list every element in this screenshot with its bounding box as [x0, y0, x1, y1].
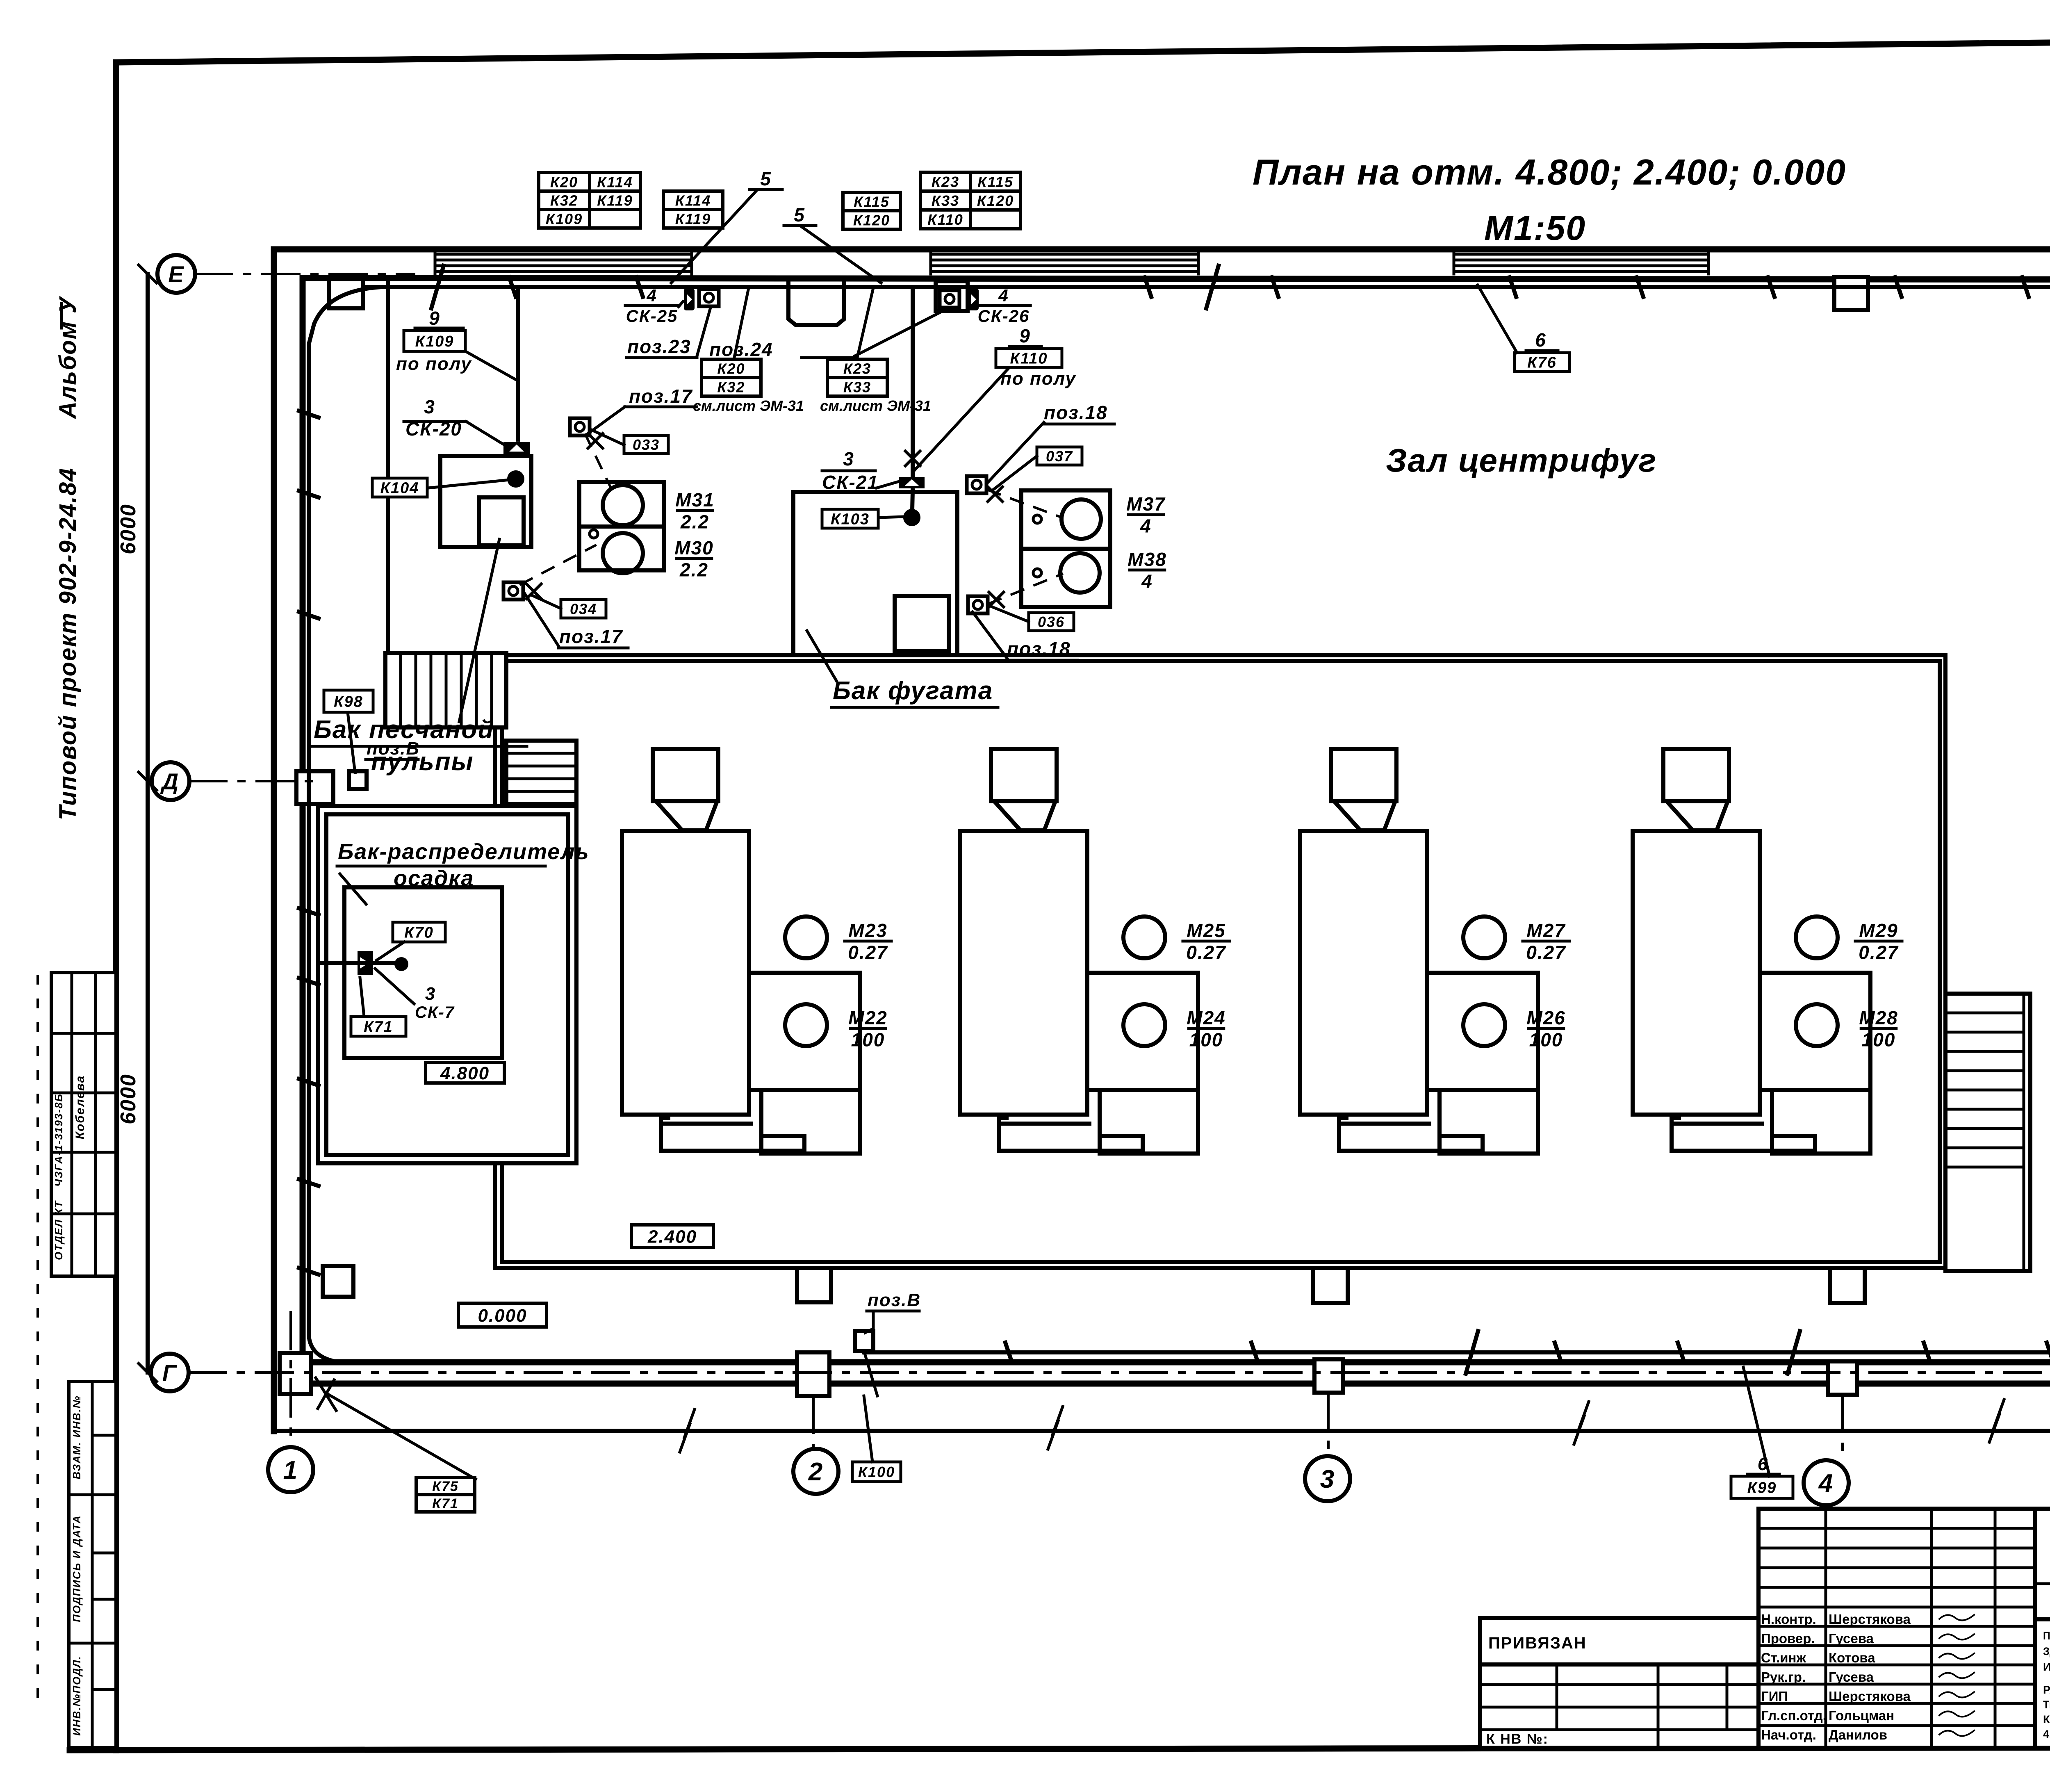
K100 bottom leader	[864, 1396, 872, 1462]
svg-text:100: 100	[851, 1029, 885, 1051]
label 5 first	[760, 168, 772, 189]
sand pulp tank label line1	[314, 716, 494, 744]
svg-text:СК-20: СК-20	[405, 418, 462, 440]
svg-text:ГИП: ГИП	[1761, 1689, 1788, 1704]
label box K99 bottom	[1731, 1476, 1793, 1498]
svg-text:033: 033	[633, 436, 660, 453]
svg-text:М1:50: М1:50	[1484, 209, 1586, 247]
svg-text:см.лист ЭМ-31: см.лист ЭМ-31	[820, 397, 931, 414]
label poz.18 upper	[1044, 402, 1108, 423]
svg-text:Альбом У: Альбом У	[55, 296, 81, 420]
svg-text:2.2: 2.2	[680, 511, 709, 533]
poz.24 underline	[802, 356, 855, 359]
label stack K115 K120	[843, 192, 900, 229]
svg-text:М29: М29	[1859, 920, 1898, 941]
svg-text:СК-26: СК-26	[978, 306, 1030, 326]
svg-text:4: 4	[646, 286, 657, 305]
bottom apron line	[274, 1429, 2050, 1433]
label CK-7	[415, 1003, 455, 1021]
svg-text:К20: К20	[717, 360, 745, 377]
fugate tank label	[833, 677, 993, 705]
top cable line	[309, 287, 2050, 1362]
left stamp upper table	[51, 973, 116, 1276]
cable drop to CK-21	[912, 289, 913, 511]
axis D dash line	[189, 780, 324, 782]
fugate leader	[807, 631, 836, 681]
label box K76	[1515, 353, 1569, 372]
sensor poz.18 upper	[967, 476, 986, 493]
svg-text:Гольцман: Гольцман	[1829, 1708, 1894, 1723]
centrifuge unit 2 body	[960, 831, 1087, 1115]
svg-text:К32: К32	[550, 192, 578, 209]
svg-text:4: 4	[1818, 1469, 1834, 1498]
svg-text:К119: К119	[597, 192, 633, 209]
svg-text:4.800; 2.400 И 0.000. ЗАЛ ЦЕНТ: 4.800; 2.400 И 0.000. ЗАЛ ЦЕНТРИФУГ	[2043, 1728, 2050, 1740]
axis 1 circle	[268, 1447, 313, 1492]
label 9 underline	[415, 327, 463, 330]
K20 K32 leader	[734, 288, 749, 359]
svg-text:М30: М30	[674, 537, 713, 559]
sand pulp tank label line2	[371, 748, 474, 776]
svg-text:Гусева: Гусева	[1829, 1631, 1874, 1646]
title block description 2	[2043, 1683, 2050, 1740]
sensor poz.B bottom	[855, 1331, 873, 1351]
centrifuge unit 2 motor box	[1089, 973, 1198, 1154]
bottom cable line	[864, 1350, 2050, 1354]
label poz.24 text	[709, 339, 773, 360]
left stamp signature text	[73, 1075, 87, 1140]
poz.23 leader	[697, 308, 711, 356]
dash link 033 to pump	[585, 435, 611, 488]
label 3 CK-20 bar	[404, 420, 466, 423]
label 5 second leader	[802, 227, 881, 283]
K71 leader	[360, 978, 364, 1017]
poz.18 lower leader	[973, 612, 1007, 658]
axis 2 circle	[793, 1449, 838, 1494]
centrifuge unit 1 motor circle lower	[785, 1004, 827, 1046]
svg-text:М25: М25	[1187, 920, 1225, 941]
K110 leader	[915, 368, 1009, 470]
svg-text:К НВ №:: К НВ №:	[1486, 1731, 1549, 1747]
svg-text:осадка: осадка	[394, 866, 474, 891]
bottom apron break 3	[1574, 1402, 1589, 1444]
svg-text:К99: К99	[1747, 1480, 1777, 1497]
label box 033	[624, 435, 668, 454]
svg-text:6000: 6000	[116, 1074, 140, 1124]
svg-text:ПОДПИСЬ И ДАТА: ПОДПИСЬ И ДАТА	[71, 1515, 83, 1622]
svg-text:К75: К75	[432, 1479, 459, 1494]
svg-text:3: 3	[425, 984, 436, 1004]
svg-text:ВЗАМ. ИНВ.№: ВЗАМ. ИНВ.№	[71, 1395, 83, 1480]
poz.24 leader	[855, 308, 948, 356]
svg-text:М27: М27	[1526, 920, 1566, 941]
top cable break marks	[431, 266, 2050, 308]
top wall door niche 1	[329, 280, 363, 308]
label 3 CK-20 numeral	[424, 396, 435, 417]
pump block M31/M30	[579, 482, 664, 573]
left margin dashed line	[36, 976, 39, 1706]
svg-text:2.400: 2.400	[647, 1227, 697, 1247]
sand pulp leader	[459, 539, 499, 722]
poz.B left underline	[366, 758, 418, 761]
dash link 034 to pump	[521, 545, 595, 584]
dash link 036 to pump M38	[989, 574, 1062, 604]
svg-text:см.лист ЭМ-31: см.лист ЭМ-31	[693, 397, 804, 414]
poz.18 lower underline	[1006, 659, 1077, 662]
top wall cable tray segment B	[931, 252, 1198, 274]
label 5 second underline	[784, 224, 816, 227]
svg-text:Нач.отд.: Нач.отд.	[1761, 1727, 1816, 1742]
K70 leader	[376, 942, 404, 960]
leader CK-25	[679, 301, 683, 307]
position sensor near CK-25	[699, 289, 719, 306]
dimension 6000 lower	[116, 1074, 140, 1124]
sensor poz.B left wall	[349, 771, 367, 789]
svg-text:ИНВ.№ПОДЛ.: ИНВ.№ПОДЛ.	[71, 1655, 83, 1736]
poz.18 upper underline	[1043, 423, 1114, 426]
platform 4.800 inner	[344, 887, 502, 1058]
svg-text:поз.17: поз.17	[559, 626, 623, 647]
label box K70	[393, 922, 445, 942]
left stamp doc number text	[52, 1093, 65, 1187]
axis 4 dash line	[1841, 1395, 1844, 1460]
poz.18 upper leader	[986, 422, 1044, 484]
fugate tank	[793, 492, 957, 655]
svg-text:К120: К120	[853, 212, 890, 228]
037 leader	[992, 456, 1037, 490]
cable drop to CK-20	[516, 289, 520, 440]
pump M30 label	[674, 537, 713, 581]
svg-text:0.27: 0.27	[1186, 942, 1226, 963]
svg-text:4: 4	[1141, 571, 1153, 592]
label 6 K76 numeral	[1535, 329, 1547, 351]
sensor CK-25 wall unit	[684, 288, 695, 310]
svg-text:И 4 ЦЕНТРИФУГАМИ ОГШ-631К-02: И 4 ЦЕНТРИФУГАМИ ОГШ-631К-02	[2043, 1661, 2050, 1673]
svg-text:К33: К33	[843, 378, 871, 395]
svg-text:М24: М24	[1187, 1007, 1225, 1028]
label box K100 bottom	[852, 1462, 901, 1482]
svg-text:К71: К71	[432, 1496, 459, 1512]
svg-text:по полу: по полу	[1000, 369, 1077, 389]
svg-text:1: 1	[283, 1456, 298, 1484]
hall label	[1386, 442, 1657, 479]
svg-text:КЛАДКА КАБЕЛЯ. ПЛАН НА ОТМ.: КЛАДКА КАБЕЛЯ. ПЛАН НА ОТМ.	[2043, 1713, 2050, 1726]
label stack K75 K71	[416, 1477, 475, 1512]
sand pulp tank hatch	[479, 497, 524, 545]
svg-text:поз.В: поз.В	[367, 739, 420, 759]
svg-text:Г: Г	[162, 1360, 178, 1386]
svg-text:К103: К103	[831, 511, 870, 528]
pump block M37/M38	[1021, 490, 1110, 607]
cross near 034	[526, 584, 541, 599]
svg-text:Зал центрифуг: Зал центрифуг	[1386, 442, 1657, 479]
svg-text:М31: М31	[675, 489, 714, 511]
top wall cable tray segment C	[1454, 252, 1708, 274]
label 9 K110 underline	[1009, 345, 1041, 348]
svg-text:6000: 6000	[116, 504, 140, 554]
centrifuge unit 1 upper motor label	[845, 920, 891, 963]
svg-text:Котова: Котова	[1829, 1650, 1875, 1665]
svg-text:РАЗМЕЩЕНИЕ ПРИБОРОВ И УСТРОЙСТ: РАЗМЕЩЕНИЕ ПРИБОРОВ И УСТРОЙСТВ	[2043, 1683, 2050, 1696]
svg-text:К98: К98	[334, 693, 363, 711]
033 leader	[591, 430, 624, 445]
elevation 4.800 label	[426, 1062, 504, 1083]
svg-text:036: 036	[1038, 613, 1065, 630]
left stamp vzam text	[71, 1395, 83, 1480]
top wall column at tray end	[936, 281, 968, 311]
sensor poz.17 034	[503, 582, 523, 600]
K99 bottom leader	[1743, 1367, 1770, 1476]
fugate label underline	[831, 706, 998, 709]
svg-text:037: 037	[1046, 448, 1073, 465]
cross on CK-21 drop	[905, 451, 920, 466]
axis 2 dash line	[812, 1396, 815, 1449]
elevation 2.400 label	[631, 1225, 713, 1247]
svg-text:0.27: 0.27	[848, 942, 888, 963]
centrifuge unit 4 upper motor label	[1855, 920, 1902, 963]
left stamp lower table	[69, 1382, 116, 1748]
centrifuge unit 3 body	[1300, 831, 1427, 1115]
dash link 037 to pump M37	[988, 490, 1062, 518]
label poz.17 upper	[629, 385, 693, 407]
label 4 CK-25	[625, 286, 679, 326]
vertical project title	[55, 467, 81, 821]
svg-text:К23: К23	[843, 360, 871, 377]
dimension ticks	[139, 265, 157, 1382]
bottom apron break 1	[680, 1409, 695, 1452]
sensor poz.18 lower	[968, 596, 988, 613]
bottom cable ticks	[1005, 1343, 2050, 1362]
axis 4 circle	[1804, 1460, 1849, 1505]
svg-text:4: 4	[1140, 515, 1152, 537]
axis G circle	[151, 1354, 189, 1391]
distributor leader	[340, 874, 366, 904]
left dimension line	[146, 274, 150, 1372]
svg-text:К114: К114	[675, 192, 711, 209]
label 3 CK-7 numeral	[425, 984, 436, 1004]
svg-text:Кобелева: Кобелева	[73, 1075, 87, 1140]
svg-text:Бак-распределитель: Бак-распределитель	[338, 839, 590, 864]
top wall outer line	[274, 246, 2050, 253]
centrifuge unit 4 discharge chute	[1672, 1115, 1815, 1151]
sand pulp tank	[440, 456, 531, 547]
label box 037	[1037, 447, 1082, 465]
centrifuge unit 2 discharge chute	[999, 1115, 1143, 1151]
stairwell corridor wall	[386, 280, 390, 653]
centrifuge unit 1 lower motor label	[848, 1007, 887, 1051]
CK-20 leader	[466, 422, 505, 445]
centrifuge unit 2 upper motor label	[1183, 920, 1230, 963]
axis 1 dash line	[289, 1312, 292, 1447]
svg-text:К109: К109	[415, 333, 454, 350]
svg-text:ЧЗГА-1-3193-8Б: ЧЗГА-1-3193-8Б	[52, 1093, 65, 1187]
centrifuge unit 2 hopper	[991, 749, 1057, 830]
pump M38 label	[1127, 549, 1166, 592]
label stack K23 K33	[827, 359, 887, 396]
title block privyazan table	[1480, 1618, 1758, 1748]
svg-text:9: 9	[1019, 325, 1031, 347]
svg-text:0.000: 0.000	[478, 1306, 527, 1326]
sensor CK-7	[358, 951, 373, 975]
title block description 1	[2043, 1630, 2050, 1673]
cross near 036	[989, 592, 1004, 607]
label box K110	[996, 349, 1062, 367]
poz.23 underline	[626, 356, 697, 359]
bottom-left cable cross	[316, 1378, 336, 1411]
svg-text:4: 4	[998, 286, 1009, 305]
svg-text:К110: К110	[927, 211, 963, 228]
svg-text:поз.17: поз.17	[629, 385, 693, 407]
svg-text:Рук.гр.: Рук.гр.	[1761, 1669, 1806, 1685]
svg-text:К115: К115	[977, 173, 1014, 190]
top wall niche 2	[788, 282, 844, 325]
svg-text:К32: К32	[717, 378, 745, 395]
svg-text:СК-7: СК-7	[415, 1003, 455, 1021]
axis D circle	[152, 762, 189, 800]
svg-text:3: 3	[1320, 1465, 1335, 1493]
centrifuge unit 3 hopper	[1331, 749, 1396, 830]
svg-text:План на отм. 4.800; 2.400; 0.0: План на отм. 4.800; 2.400; 0.000	[1253, 152, 1846, 192]
bottom apron break 4	[1989, 1400, 2004, 1442]
label poz.17 lower	[559, 626, 623, 647]
036 leader	[992, 607, 1029, 622]
vertical album title	[55, 296, 81, 420]
label 6 K99 numeral bottom	[1758, 1454, 1768, 1474]
CK-7 leader	[375, 969, 414, 1004]
poz.B bottom drop line	[864, 1351, 877, 1396]
svg-text:К109: К109	[546, 210, 583, 227]
svg-text:5: 5	[794, 204, 805, 226]
label 4 CK-26	[977, 286, 1030, 326]
centrifuge unit 1 body	[622, 831, 749, 1115]
fugate tank cable dot	[905, 511, 918, 524]
left wall outer line	[271, 249, 277, 1431]
svg-text:100: 100	[1862, 1029, 1896, 1051]
K104 leader	[428, 480, 510, 488]
svg-text:К115: К115	[854, 193, 890, 210]
drawing frame bottom border	[70, 1747, 2050, 1750]
svg-text:ЗДАНИЕ С 6 ВОЗДУХОДУВКАМИ ТВ-8: ЗДАНИЕ С 6 ВОЗДУХОДУВКАМИ ТВ-80-1,6	[2043, 1645, 2050, 1657]
svg-text:поз.23: поз.23	[627, 336, 691, 357]
left stamp podpis text	[71, 1515, 83, 1622]
stairs right side	[1945, 994, 2030, 1271]
centrifuge unit 3 motor box	[1429, 973, 1538, 1154]
K76 leader	[1478, 285, 1517, 353]
label po polu left	[396, 354, 472, 374]
svg-text:К100: К100	[858, 1464, 895, 1480]
centrifuge unit 1 hopper	[653, 749, 718, 830]
svg-text:М28: М28	[1859, 1007, 1898, 1028]
svg-text:ПРИВЯЗАН: ПРИВЯЗАН	[1488, 1634, 1587, 1652]
K75 K71 leader	[328, 1394, 476, 1479]
position sensor near CK-26	[940, 290, 959, 308]
svg-text:0.27: 0.27	[1859, 942, 1899, 963]
column axis 2 bottom	[797, 1352, 829, 1396]
svg-text:6: 6	[1535, 329, 1547, 351]
centrifuge unit 1 motor box	[751, 973, 860, 1154]
svg-text:4.800: 4.800	[440, 1063, 490, 1083]
K109 leader	[465, 351, 517, 381]
centrifuge unit 2 lower motor label	[1187, 1007, 1225, 1051]
svg-text:ПРОИЗВОДСТВЕННО-ВСПОМОГАТЕЛЬНО: ПРОИЗВОДСТВЕННО-ВСПОМОГАТЕЛЬНОЕ	[2043, 1630, 2050, 1642]
label 9 K109 numeral	[429, 308, 440, 329]
svg-text:5: 5	[760, 168, 772, 189]
label box 034	[561, 600, 606, 618]
label 3 CK-21 numeral	[843, 448, 854, 470]
svg-text:М26: М26	[1526, 1007, 1565, 1028]
sheet title line 1	[1253, 152, 1846, 192]
svg-text:3: 3	[424, 396, 435, 417]
label po polu right	[1000, 369, 1077, 389]
centrifuge unit 4 motor circle lower	[1796, 1004, 1838, 1046]
left wall inner line	[300, 278, 306, 1362]
top wall inner line	[303, 278, 2050, 280]
cross near 033	[588, 433, 603, 448]
svg-text:СК-25: СК-25	[626, 306, 678, 326]
label 5 second	[794, 204, 805, 226]
svg-text:3: 3	[843, 448, 854, 470]
centrifuge unit 4 body	[1633, 831, 1760, 1115]
svg-text:Ст.инж: Ст.инж	[1761, 1650, 1806, 1665]
album overline	[60, 303, 63, 328]
bottom cable breaks	[1466, 1331, 1800, 1374]
distributor tank label line1	[338, 839, 590, 864]
svg-text:Е: Е	[168, 261, 184, 287]
centrifuge unit 3 discharge chute	[1339, 1115, 1483, 1151]
sensor CK-20	[503, 442, 530, 454]
platform 2.400 outline double	[495, 655, 1945, 1268]
drawing frame left border	[113, 62, 119, 1750]
K98 leader	[348, 712, 355, 773]
fugate tank hatch	[895, 596, 949, 651]
svg-text:М37: М37	[1126, 493, 1166, 515]
column axis 4 bottom	[1828, 1361, 1857, 1395]
svg-text:М22: М22	[848, 1007, 887, 1028]
see sheet EM-31 right	[820, 397, 931, 414]
distributor label underline	[337, 865, 545, 868]
svg-text:К110: К110	[1010, 350, 1048, 367]
label poz.B left	[367, 739, 420, 759]
svg-text:2.2: 2.2	[679, 559, 708, 581]
svg-text:100: 100	[1189, 1029, 1223, 1051]
top cable ticks	[509, 277, 2050, 297]
cross near 037	[988, 487, 1002, 502]
svg-text:100: 100	[1529, 1029, 1563, 1051]
axis E dash line	[195, 273, 414, 275]
centrifuge unit 2 motor circle lower	[1123, 1004, 1165, 1046]
column axis 3 bottom	[1314, 1359, 1343, 1393]
left stamp otdel text	[52, 1200, 65, 1260]
left wall pilaster at axis D	[296, 771, 333, 804]
svg-text:поз.18: поз.18	[1007, 638, 1071, 659]
title block main field	[2035, 1509, 2050, 1748]
label poz.18 lower	[1007, 638, 1071, 659]
poz.17 lower leader	[525, 594, 558, 646]
centrifuge unit 1 discharge chute	[661, 1115, 804, 1151]
svg-text:К76: К76	[1527, 354, 1557, 372]
sheet title line 2	[1484, 209, 1586, 247]
drawing frame top border	[116, 38, 2050, 62]
sensor poz.17 033	[570, 418, 590, 435]
label box 036	[1029, 613, 1074, 631]
poz.B bottom underline	[867, 1310, 919, 1313]
centrifuge unit 2 motor circle upper	[1123, 917, 1165, 958]
svg-text:Бак фугата: Бак фугата	[833, 677, 993, 705]
label box K71	[351, 1017, 406, 1036]
svg-text:Провер.: Провер.	[1761, 1631, 1815, 1646]
label stack K114 K119	[663, 191, 723, 228]
column on floor bottom-left	[323, 1266, 353, 1297]
